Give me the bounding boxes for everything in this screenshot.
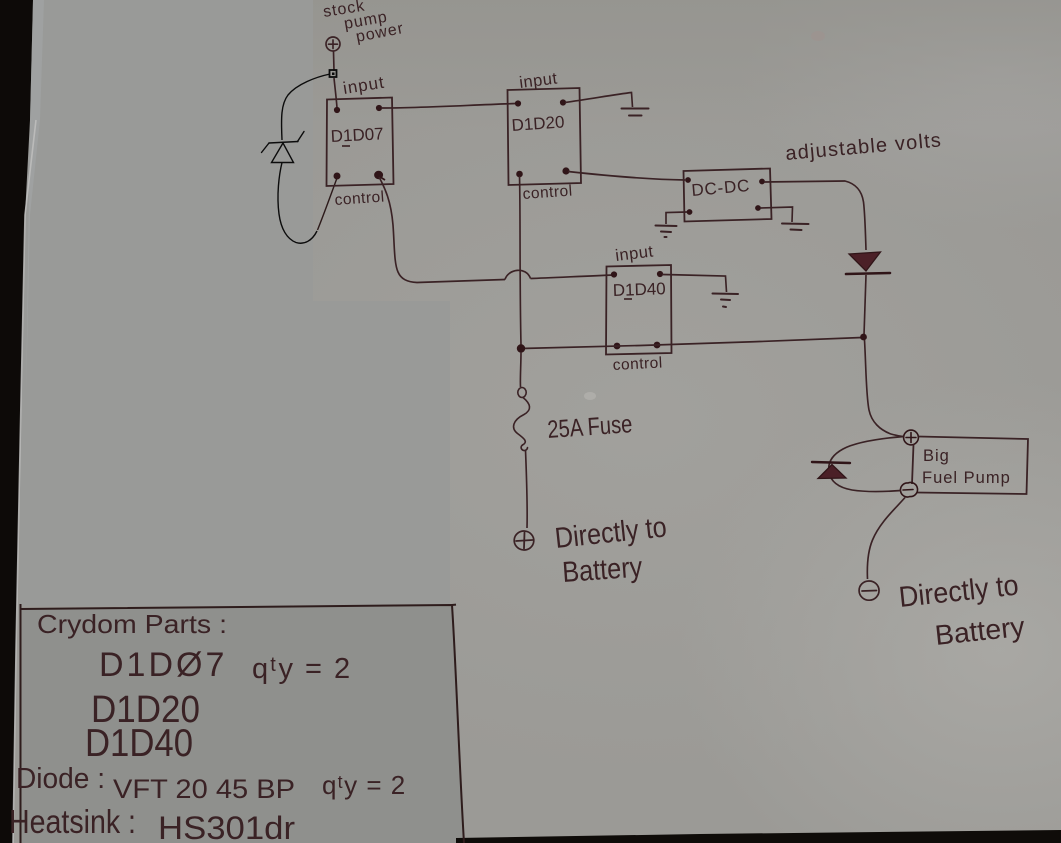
wire: black annotation from zener D1 down and around to D1D07 control xyxy=(278,163,317,244)
svg-text:25A Fuse: 25A Fuse xyxy=(546,410,633,444)
battery terminal - (directly to battery, right) xyxy=(859,581,879,600)
wire: D1D20 pin4 to DC-DC pin1 xyxy=(568,172,685,181)
pin 2 D1D07 (input right) xyxy=(376,105,382,111)
svg-text:control: control xyxy=(612,354,663,374)
underline under 1 of D1D40 xyxy=(624,298,632,300)
wire: hop over vertical wire xyxy=(505,270,531,279)
wire: D1D07 pin2 to D1D20 pin1 xyxy=(381,104,516,109)
svg-text:Heatsink :: Heatsink : xyxy=(9,803,136,840)
svg-text:Battery: Battery xyxy=(561,551,643,589)
svg-text:Fuel Pump: Fuel Pump xyxy=(922,469,1011,487)
label: stock pump power xyxy=(322,0,405,46)
fuse F1 (25A) xyxy=(514,388,530,451)
battery terminal + (directly to battery, center) xyxy=(513,530,534,551)
ground GND4 xyxy=(713,294,739,308)
relay U4 D1D40 body xyxy=(606,265,672,355)
light sliver along left table edge xyxy=(13,120,36,843)
parts list box interior paper xyxy=(20,605,464,843)
ground GND2 xyxy=(656,226,677,238)
svg-text:Diode :: Diode : xyxy=(16,763,105,795)
pin 3 D1D20 (control left) xyxy=(516,171,523,178)
relay U1 D1D07 body xyxy=(327,98,394,187)
pin 4 D1D20 (control right) xyxy=(562,167,569,174)
svg-text:Crydom Parts :: Crydom Parts : xyxy=(37,609,227,639)
dc-dc converter U3 body xyxy=(684,169,772,222)
wire: node square down to D1D07 pin 1 xyxy=(334,78,337,108)
pin 2 D1D40 (input right) xyxy=(657,271,663,277)
pin 1 D1D07 (input left) xyxy=(334,107,340,113)
wire: loop from pump + around to pump - (through diode D3) xyxy=(829,437,904,492)
zener diode D1 (black annotation) xyxy=(262,132,305,163)
wire: junction B down to big fuel pump + terminal xyxy=(865,340,904,437)
pin 4 D1D40 (control right) xyxy=(654,342,661,349)
node: black square junction xyxy=(330,70,337,77)
junction node A xyxy=(517,344,525,352)
pin 3 U3 (left bottom) xyxy=(687,209,693,215)
pin 3 D1D40 (control left) xyxy=(614,343,621,350)
wire: U3 pin2 right then down to diode D2 xyxy=(764,181,866,250)
svg-text:control: control xyxy=(522,183,573,203)
junction node B xyxy=(860,334,867,341)
svg-text:D1D40: D1D40 xyxy=(85,722,193,765)
svg-text:D1DØ7: D1DØ7 xyxy=(99,646,227,684)
svg-text:D1D20: D1D20 xyxy=(511,112,565,135)
pin 3 D1D07 (control left) xyxy=(334,173,341,180)
svg-text:HS301dr: HS301dr xyxy=(158,810,295,843)
diode D3 (across pump, pointing up) xyxy=(812,462,850,479)
pin 4 D1D07 (control right) xyxy=(375,172,385,180)
wire: fuse F1 down to battery + terminal xyxy=(526,450,528,528)
svg-text:control: control xyxy=(334,189,385,209)
svg-text:qᵗy = 2: qᵗy = 2 xyxy=(252,653,352,685)
pump terminal + xyxy=(904,430,919,445)
wire: diode D2 to junction node B xyxy=(864,275,866,335)
pin 2 U3 (right top) xyxy=(759,179,765,185)
dark table edge left xyxy=(0,0,33,843)
underline under 1 of D1D07 xyxy=(342,145,350,147)
pin 4 U3 (right bottom) xyxy=(755,205,761,211)
wire: hop to D1D40 pin1 xyxy=(531,275,615,279)
big fuel pump M1 body xyxy=(912,437,1028,495)
ground GND1 xyxy=(622,109,649,116)
wire: control bus from junction A through D1D40 pins 3,4 to junction B xyxy=(521,338,862,349)
ground GND3 xyxy=(782,224,809,231)
svg-text:VFT 20 45 BP: VFT 20 45 BP xyxy=(113,774,295,804)
wire: stock power terminal down to node xyxy=(333,52,336,72)
wire: U3 pin4 to ground GND3 xyxy=(760,207,793,222)
wire: D1D07 control pin 3 to zener wire xyxy=(318,178,338,230)
wire: pump - down to battery - terminal xyxy=(867,498,905,580)
dark table edge bottom right xyxy=(456,830,1061,843)
pin 2 D1D20 (input right) xyxy=(560,99,566,105)
pin 1 U3 (left top) xyxy=(685,177,691,183)
pump terminal - xyxy=(900,483,917,497)
pin 1 D1D40 (input left) xyxy=(611,271,617,277)
svg-text:D1D40: D1D40 xyxy=(612,279,666,300)
relay U2 D1D20 body xyxy=(508,88,582,185)
wire: D1D07 pin4 control down-right to D1D40 input wire xyxy=(379,177,505,283)
svg-text:D1D07: D1D07 xyxy=(330,124,384,146)
battery terminal + (stock pump power) xyxy=(326,37,340,51)
diode D2 (to battery feed, pointing down) xyxy=(846,252,890,274)
flat gray redacted region xyxy=(20,0,450,606)
wire: D1D20 pin3 control down to junction node A xyxy=(520,176,522,345)
wire: U3 pin3 to ground GND2 xyxy=(666,212,687,224)
svg-text:qᵗy = 2: qᵗy = 2 xyxy=(322,770,406,800)
paper blemish dot xyxy=(584,392,596,400)
wire: black annotation from node to zener diode D1 xyxy=(282,74,330,140)
wire: D1D40 pin2 to ground GND4 xyxy=(662,275,727,293)
wire: D1D20 pin2 to ground GND1 xyxy=(565,93,633,108)
svg-text:Big: Big xyxy=(923,447,950,465)
wire: junction A down to fuse F1 xyxy=(519,352,522,387)
parts list box xyxy=(21,604,465,843)
pin 1 D1D20 (input left) xyxy=(515,100,521,106)
